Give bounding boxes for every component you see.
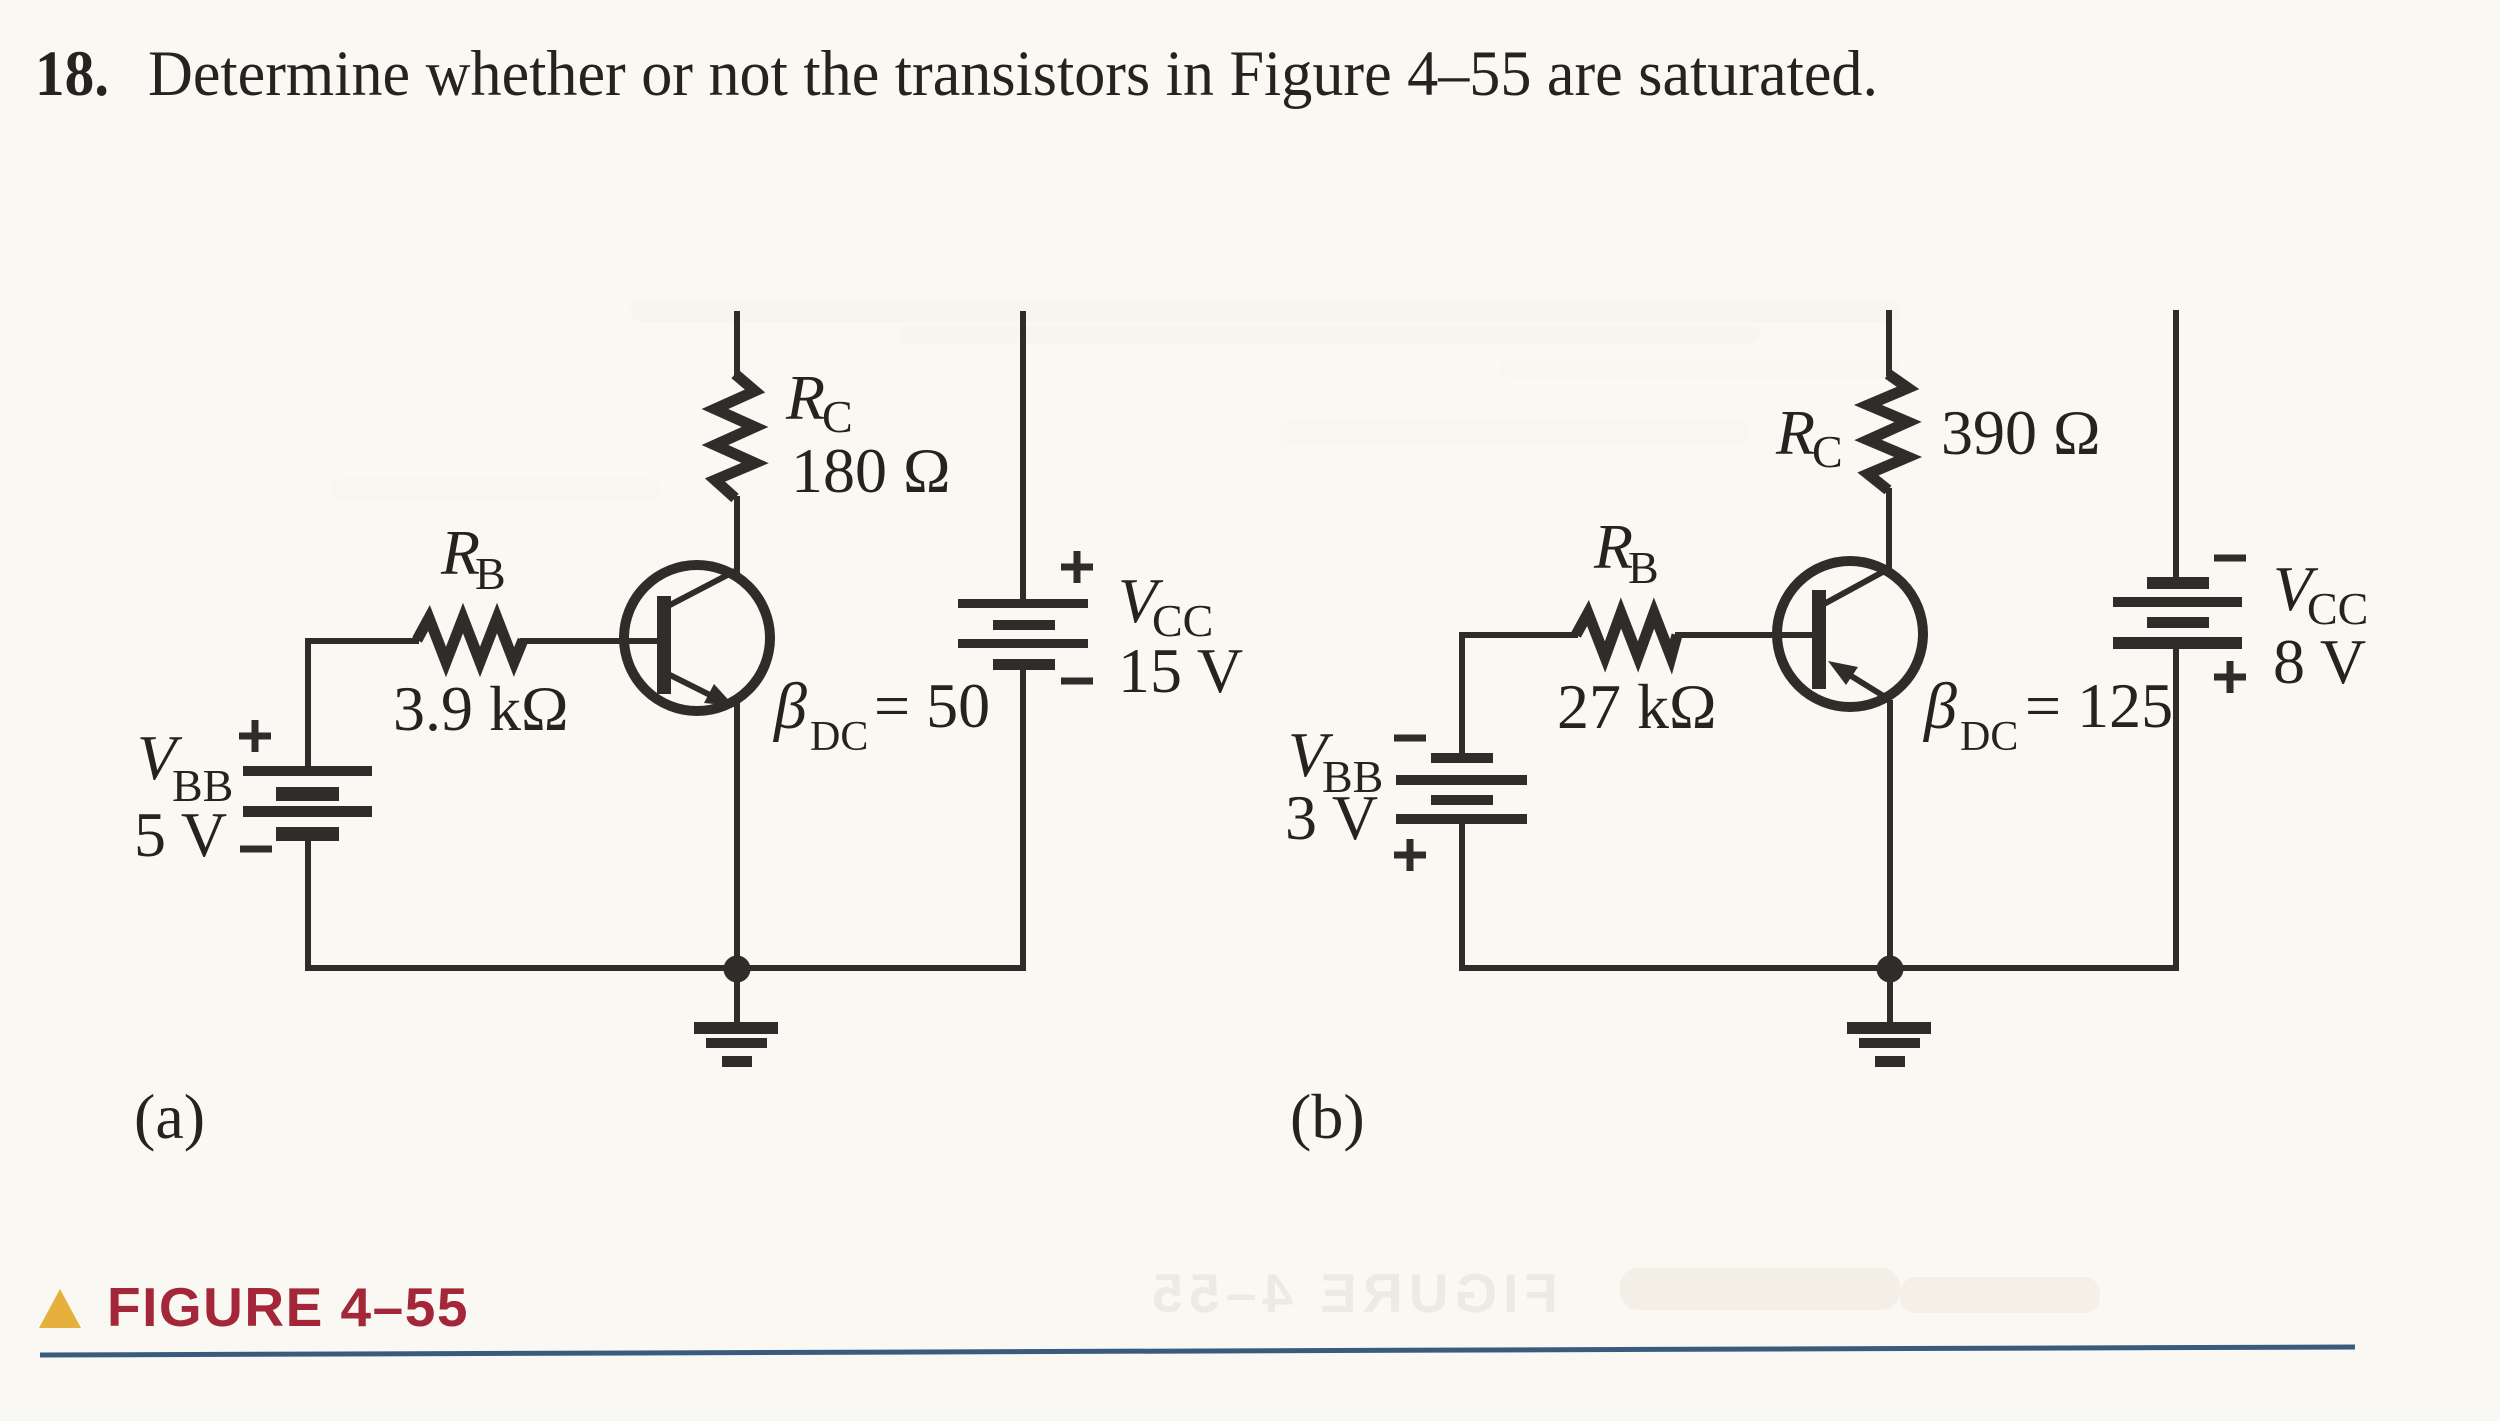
label plus sign VBB (b) bbox=[1394, 839, 1426, 871]
wire: collector top vertical (a) bbox=[734, 311, 740, 376]
wire: emitter vertical (b) bbox=[1887, 700, 1893, 969]
battery VBB (b) bbox=[1396, 753, 1527, 824]
battery VBB (a) bbox=[243, 766, 372, 841]
svg-text:β: β bbox=[1922, 670, 1957, 743]
label 5 V value (a) bbox=[134, 799, 227, 870]
node: ground junction dot (a) bbox=[724, 956, 751, 983]
label 3 V value (b) bbox=[1285, 782, 1378, 853]
svg-text:3 V: 3 V bbox=[1285, 782, 1378, 853]
ground symbol (b) bbox=[1847, 975, 1931, 1067]
svg-text:DC: DC bbox=[810, 714, 868, 760]
svg-text:FIGURE 4–55: FIGURE 4–55 bbox=[1147, 1262, 1558, 1324]
resistor RB (a) bbox=[417, 618, 523, 662]
label RC (b) bbox=[1775, 397, 1843, 477]
label beta DC = 50 (a) bbox=[772, 670, 990, 760]
label RB (b) bbox=[1593, 511, 1659, 593]
svg-text:(b): (b) bbox=[1290, 1081, 1365, 1152]
label minus sign VCC (a) bbox=[1061, 678, 1093, 685]
label 180 ohm value (a) bbox=[791, 435, 951, 506]
svg-text:FIGURE 4–55: FIGURE 4–55 bbox=[107, 1276, 469, 1338]
svg-text:(a): (a) bbox=[134, 1081, 205, 1152]
wire: left vertical upper (b) bbox=[1459, 632, 1465, 754]
svg-text:DC: DC bbox=[1960, 714, 2018, 760]
label beta DC = 125 (b) bbox=[1922, 670, 2173, 760]
resistor RC (a) bbox=[715, 374, 755, 498]
wire: left vertical lower (b) bbox=[1459, 824, 1465, 971]
label (a) bbox=[134, 1081, 205, 1152]
svg-text:3.9 kΩ: 3.9 kΩ bbox=[393, 673, 569, 744]
label VCC (a) bbox=[1118, 565, 1213, 646]
label minus sign VCC (b) bbox=[2214, 555, 2246, 562]
svg-text:= 50: = 50 bbox=[874, 670, 990, 741]
label plus sign VCC (a) bbox=[1061, 551, 1093, 583]
label 8 V value (b) bbox=[2273, 626, 2366, 697]
node: ground junction dot (b) bbox=[1877, 956, 1904, 983]
wire: collector lead into transistor (b) bbox=[1886, 488, 1892, 570]
svg-text:15 V: 15 V bbox=[1118, 635, 1243, 706]
svg-text:= 125: = 125 bbox=[2025, 670, 2173, 741]
label 390 ohm value (b) bbox=[1941, 397, 2101, 468]
wire: base wire right segment (b) bbox=[1675, 632, 1812, 638]
label 27 kohm value (b) bbox=[1557, 671, 1717, 742]
svg-text:8 V: 8 V bbox=[2273, 626, 2366, 697]
label VBB (a) bbox=[137, 722, 233, 811]
wire: collector top vertical (b) bbox=[1886, 310, 1892, 376]
label plus sign VCC (b) bbox=[2214, 661, 2246, 693]
label minus sign VBB (b) bbox=[1394, 735, 1426, 742]
wire: bottom wire (b) bbox=[1459, 965, 2176, 971]
wire: right vertical lower (b) bbox=[2173, 649, 2179, 971]
label VBB (b) bbox=[1288, 719, 1383, 802]
resistor RB (b) bbox=[1576, 613, 1677, 657]
wire: left vertical upper (a) bbox=[305, 638, 311, 766]
wire: bottom wire (a) bbox=[305, 965, 1023, 971]
wire: right vertical lower (a) bbox=[1020, 670, 1026, 971]
svg-text:R: R bbox=[785, 362, 825, 433]
battery VCC (b) bbox=[2113, 577, 2242, 649]
svg-text:390 Ω: 390 Ω bbox=[1941, 397, 2101, 468]
svg-text:18.: 18. bbox=[35, 38, 109, 110]
svg-text:B: B bbox=[475, 548, 506, 599]
svg-text:C: C bbox=[1812, 426, 1843, 477]
wire: left vertical lower (a) bbox=[305, 841, 311, 971]
wire: base wire left segment (a) bbox=[308, 638, 419, 644]
wire: collector lead into transistor (a) bbox=[734, 496, 740, 573]
label (b) bbox=[1290, 1081, 1365, 1152]
svg-text:R: R bbox=[1775, 397, 1815, 468]
label minus sign VBB (a) bbox=[240, 846, 272, 853]
label VCC (b) bbox=[2273, 553, 2368, 634]
resistor RC (b) bbox=[1868, 374, 1908, 490]
svg-text:B: B bbox=[1628, 542, 1659, 593]
transistor Q2 (b) PNP bbox=[1777, 561, 1923, 707]
battery VCC (a) bbox=[958, 599, 1088, 670]
ground symbol (a) bbox=[694, 975, 778, 1067]
figure caption triangle marker bbox=[39, 1289, 81, 1328]
label 3.9 kohm value (a) bbox=[393, 673, 569, 744]
figure caption FIGURE 4-55 bbox=[107, 1276, 469, 1338]
svg-text:27 kΩ: 27 kΩ bbox=[1557, 671, 1717, 742]
wire: right vertical upper (b) bbox=[2173, 310, 2179, 577]
wire: base wire right segment (a) bbox=[520, 638, 657, 644]
svg-text:Determine whether or not the t: Determine whether or not the transistors… bbox=[148, 38, 1878, 110]
label RC (a) bbox=[785, 362, 853, 442]
svg-text:5 V: 5 V bbox=[134, 799, 227, 870]
blue rule under caption bbox=[40, 1347, 2355, 1355]
label 15 V value (a) bbox=[1118, 635, 1243, 706]
wire: base wire left segment (b) bbox=[1462, 632, 1578, 638]
svg-text:β: β bbox=[772, 670, 807, 743]
wire: right vertical upper (a) bbox=[1020, 311, 1026, 599]
wire: emitter vertical (a) bbox=[734, 703, 740, 969]
label RB (a) bbox=[440, 517, 506, 599]
label plus sign VBB (a) bbox=[239, 720, 271, 752]
svg-text:180 Ω: 180 Ω bbox=[791, 435, 951, 506]
transistor Q1 (a) NPN bbox=[624, 565, 770, 711]
